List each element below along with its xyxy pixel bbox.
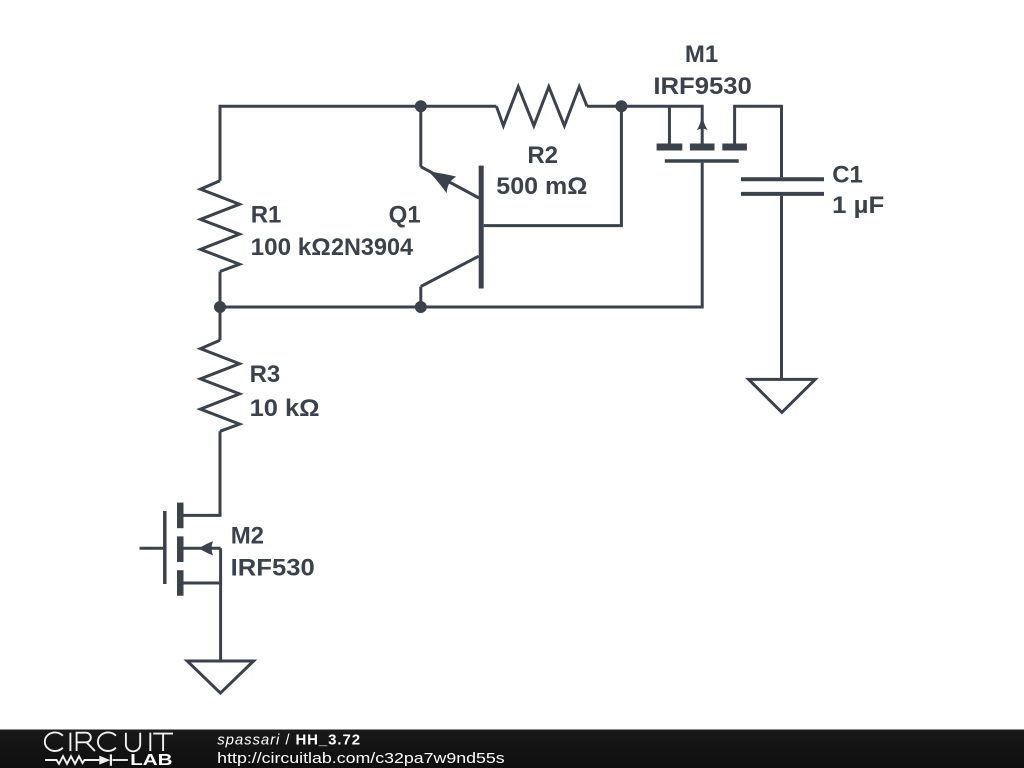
svg-text:10 kΩ: 10 kΩ xyxy=(250,395,320,422)
ground for M2 xyxy=(187,661,253,693)
C1 top plate xyxy=(741,177,824,181)
svg-text:2N3904: 2N3904 xyxy=(331,234,414,261)
M2 body wire with arrow xyxy=(184,547,221,550)
wire top-left from R1 top to R2 left xyxy=(220,106,496,181)
svg-text:500 mΩ: 500 mΩ xyxy=(496,173,587,200)
ground for C1 xyxy=(749,379,816,412)
M1 contact bars xyxy=(657,144,683,151)
Q1 emitter wire from top node xyxy=(419,106,422,166)
CircuitLab logo squiggle resistor xyxy=(45,756,99,764)
M2 contact bars xyxy=(177,503,184,529)
M2 source lead xyxy=(184,582,221,585)
Q1 emitter diagonal xyxy=(421,167,479,198)
Q1 collector diagonal xyxy=(421,256,479,286)
svg-text:http://circuitlab.com/c32pa7w9: http://circuitlab.com/c32pa7w9nd55s xyxy=(217,750,505,767)
svg-text:R3: R3 xyxy=(250,361,281,388)
wire R3 top lead xyxy=(219,307,222,340)
footer bar xyxy=(0,730,1024,768)
svg-text:IRF9530: IRF9530 xyxy=(653,73,752,100)
svg-text:C1: C1 xyxy=(832,162,863,189)
svg-text:LAB: LAB xyxy=(130,752,173,768)
MOSFET M1 xyxy=(657,106,747,161)
svg-text:1 µF: 1 µF xyxy=(832,192,884,219)
wire R1 bottom lead xyxy=(219,272,222,308)
node junction bottom left (R1/R3) xyxy=(214,301,226,313)
CircuitLab logo CIRCUIT xyxy=(45,732,173,751)
svg-text:Q1: Q1 xyxy=(389,201,421,228)
transistor Q1 xyxy=(421,106,622,307)
wire R2 right to M1 source xyxy=(587,106,702,143)
resistor R1 xyxy=(201,181,240,272)
M2 body arrow xyxy=(199,541,213,555)
svg-text:R1: R1 xyxy=(251,201,282,228)
wire M1 drain to C1 top xyxy=(735,106,782,177)
M1 channel line xyxy=(665,159,739,163)
resistor R2 xyxy=(496,87,587,126)
svg-text:M1: M1 xyxy=(685,41,718,68)
Q1 base wire to top node xyxy=(484,106,622,225)
svg-text:spassari / HH_3.72: spassari / HH_3.72 xyxy=(217,732,361,749)
resistor R3 xyxy=(201,340,240,431)
svg-text:R2: R2 xyxy=(527,142,558,169)
node junction bottom (Q1 collector/rail) xyxy=(415,301,427,313)
svg-text:100 kΩ: 100 kΩ xyxy=(251,234,331,261)
MOSFET M2 xyxy=(140,503,221,661)
M1 left lead xyxy=(668,106,671,143)
C1 bottom plate xyxy=(741,192,824,196)
Q1 emitter arrow xyxy=(429,172,457,194)
capacitor C1 xyxy=(741,179,824,194)
Q1 collector wire xyxy=(419,287,422,308)
wire bottom rail and M1 gate stem xyxy=(220,163,702,307)
Q1 base bar xyxy=(479,166,484,289)
node junction top left (R1/Q1 emitter) xyxy=(415,100,427,112)
M1 source arrow xyxy=(697,117,708,131)
CircuitLab logo diode xyxy=(99,756,110,765)
node junction top right (R2/Q1 base/M1) xyxy=(615,100,627,112)
M2 gate lead xyxy=(140,547,165,550)
M2 source wire down xyxy=(219,548,222,661)
M2 channel line xyxy=(163,511,167,584)
wire R3 bottom lead to M2 drain xyxy=(180,431,220,515)
wire C1 bottom lead xyxy=(780,196,783,380)
svg-text:M2: M2 xyxy=(231,523,264,550)
svg-text:IRF530: IRF530 xyxy=(231,555,315,582)
